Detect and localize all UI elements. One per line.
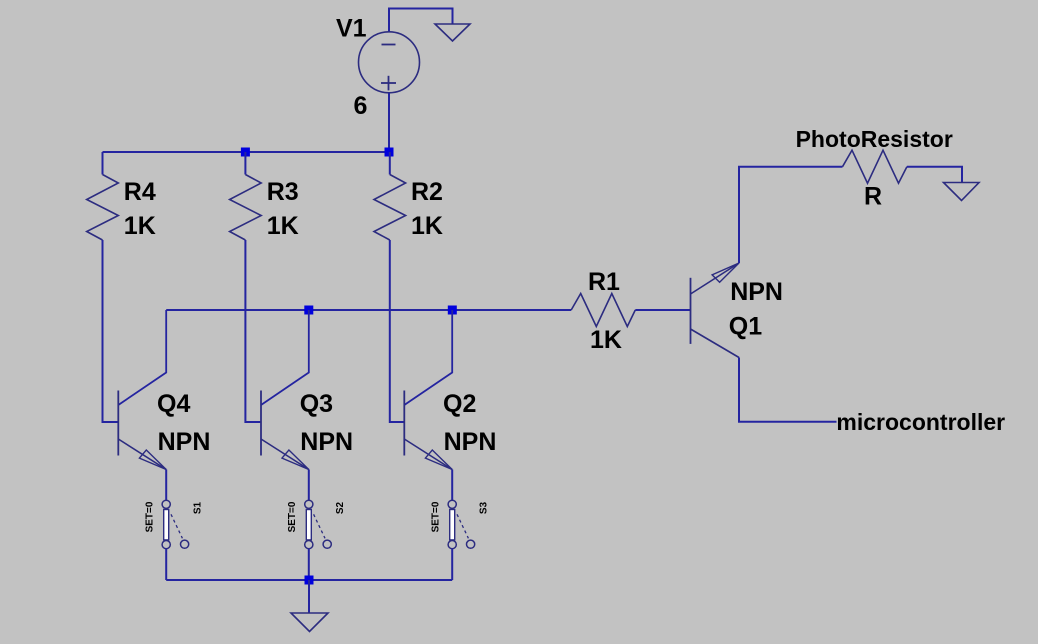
svg-text:Q4: Q4	[157, 390, 190, 418]
svg-text:microcontroller: microcontroller	[836, 409, 1005, 435]
svg-text:R4: R4	[124, 178, 156, 206]
wire bottom rail	[166, 579, 452, 581]
svg-text:V1: V1	[336, 15, 367, 43]
node junction middle rail at Q2	[448, 306, 457, 315]
switch S2	[305, 500, 332, 549]
resistor R2	[374, 175, 406, 241]
wire S1 to bottom rail	[165, 549, 167, 580]
wire Q3 emitter to S2	[308, 470, 310, 501]
svg-text:PhotoResistor: PhotoResistor	[796, 126, 953, 152]
wire R2 top lead	[389, 152, 391, 175]
wire bottom rail to ground	[308, 580, 310, 613]
switch S3	[448, 500, 475, 549]
wire Q1 emitter up to photoresistor	[739, 167, 843, 263]
svg-text:Q1: Q1	[729, 313, 762, 341]
svg-text:NPN: NPN	[730, 278, 783, 306]
wire Q2 collector	[404, 310, 452, 405]
wire S3 to bottom rail	[451, 549, 453, 580]
svg-text:SET=0: SET=0	[430, 501, 441, 532]
wire photoresistor to ground	[907, 167, 962, 182]
resistor R4	[87, 175, 119, 241]
svg-text:Q3: Q3	[300, 390, 333, 418]
svg-text:6: 6	[354, 92, 368, 120]
wire Q4 collector	[118, 310, 166, 405]
node junction bottom rail	[305, 576, 314, 585]
photoresistor R	[843, 150, 907, 183]
svg-text:R2: R2	[411, 178, 443, 206]
svg-text:1K: 1K	[124, 212, 156, 240]
transistor Q2	[404, 391, 452, 470]
switch S1	[162, 500, 189, 549]
svg-text:NPN: NPN	[158, 428, 211, 456]
transistor Q3	[261, 391, 309, 470]
wire R1 to Q1 base	[635, 309, 690, 311]
transistor Q4	[118, 391, 166, 470]
svg-text:S1: S1	[192, 501, 203, 514]
wire R4 bottom lead to Q4 base	[103, 240, 119, 422]
wire R4 top lead	[102, 152, 104, 175]
wire V1 bottom to top rail	[388, 93, 390, 152]
wire Q3 collector	[261, 310, 309, 405]
wire V1 top to ground	[389, 9, 453, 32]
svg-text:1K: 1K	[590, 326, 622, 354]
node junction middle rail at Q3	[304, 306, 313, 315]
svg-text:R3: R3	[267, 178, 299, 206]
svg-text:S3: S3	[478, 501, 489, 514]
svg-text:Q2: Q2	[443, 390, 476, 418]
ground symbol at V1	[435, 24, 470, 41]
svg-text:R: R	[864, 183, 882, 211]
transistor Q1	[691, 263, 740, 358]
resistor R3	[230, 175, 262, 241]
wire top rail	[103, 151, 390, 153]
wire R2 bottom lead to Q2 base	[390, 240, 405, 422]
wire Q4 emitter to S1	[165, 470, 167, 501]
svg-text:S2: S2	[335, 501, 346, 514]
node junction top rail at R3	[241, 148, 250, 157]
wire Q1 collector to microcontroller	[739, 358, 837, 422]
wire R3 bottom lead to Q3 base	[245, 240, 261, 422]
svg-text:R1: R1	[588, 268, 620, 296]
svg-text:SET=0: SET=0	[144, 501, 155, 532]
svg-text:1K: 1K	[267, 212, 299, 240]
voltage source V1	[359, 32, 420, 93]
wire middle rail (bases bus to R1)	[166, 309, 571, 311]
svg-text:NPN: NPN	[444, 428, 497, 456]
svg-text:NPN: NPN	[300, 428, 353, 456]
wire R3 top lead	[244, 152, 246, 175]
wire Q2 emitter to S3	[451, 470, 453, 501]
svg-text:SET=0: SET=0	[287, 501, 298, 532]
wire S2 to bottom rail	[308, 549, 310, 580]
resistor R1	[571, 294, 635, 327]
ground symbol at photoresistor	[944, 183, 980, 201]
ground symbol bottom	[291, 613, 328, 632]
node junction top rail at R2/V1	[385, 148, 394, 157]
svg-text:1K: 1K	[411, 212, 443, 240]
